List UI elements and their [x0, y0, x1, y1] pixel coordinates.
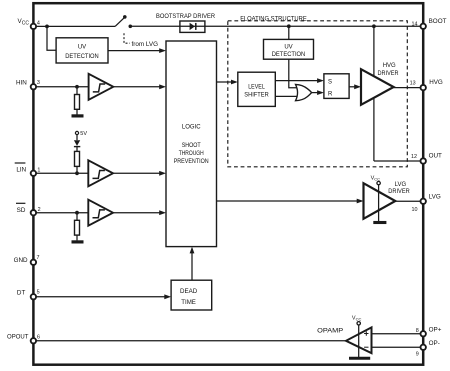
pin 3 HIN — [31, 84, 36, 89]
ground (HIN pulldown) — [72, 114, 84, 117]
arrow into dead time — [164, 294, 171, 299]
floating structure dashed box — [228, 21, 407, 167]
hysteresis symbol HIN — [93, 84, 105, 92]
svg-text:SD: SD — [17, 207, 26, 214]
svg-text:from LVG: from LVG — [132, 42, 159, 48]
OR gate — [296, 84, 312, 100]
pin 14 BOOT — [421, 24, 426, 29]
pin 8 OP+ — [421, 331, 426, 336]
svg-text:OP-: OP- — [429, 340, 440, 347]
svg-text:BOOTSTRAP DRIVER: BOOTSTRAP DRIVER — [156, 14, 216, 20]
schmitt trigger SD — [88, 200, 113, 226]
svg-text:DT: DT — [17, 289, 26, 296]
wire VCC through opamp to ground — [358, 325, 360, 357]
wire SD junction to resistor — [76, 213, 78, 221]
wire LVG driver to pin — [395, 200, 423, 202]
svg-text:HIN: HIN — [16, 80, 27, 87]
wire switch to bootstrap driver — [130, 25, 180, 27]
wire HVG driver to pin — [394, 87, 424, 89]
wire OP- pin to op-amp — [372, 346, 423, 348]
svg-text:DRIVER: DRIVER — [378, 71, 400, 77]
ground (LVG driver) — [373, 221, 386, 224]
svg-text:HVG: HVG — [429, 79, 443, 86]
wire VCC through LVG driver to ground — [378, 185, 380, 221]
wire BOOT rail down to OUT — [373, 26, 375, 161]
wire VCC pin to switch — [33, 25, 115, 27]
svg-text:4: 4 — [37, 20, 40, 26]
wire HIN junction to resistor — [76, 87, 78, 95]
box bootstrap driver — [180, 21, 205, 32]
svg-text:12: 12 — [411, 154, 417, 160]
wire level shifter to S input — [275, 80, 322, 82]
svg-text:PREVENTION: PREVENTION — [174, 159, 209, 165]
svg-text:THROUGH: THROUGH — [179, 151, 204, 157]
wire logic to LVG driver — [217, 200, 362, 202]
wire LIN pin to schmitt — [33, 172, 88, 174]
svg-text:14: 14 — [412, 22, 418, 28]
switch contact dot lower — [129, 25, 133, 29]
svg-text:SHOOT: SHOOT — [182, 143, 201, 149]
node HIN junction — [75, 85, 79, 89]
VCC supply circle (OPAMP) — [357, 322, 360, 325]
wire resistor to ground — [76, 109, 78, 114]
svg-text:OUT: OUT — [429, 153, 442, 160]
wire resistor to ground — [76, 235, 78, 240]
pin 10 LVG — [421, 199, 426, 204]
op-amp OPAMP — [346, 327, 372, 353]
svg-text:UV: UV — [78, 45, 86, 51]
wire HIN schmitt to logic — [113, 86, 164, 88]
wire OR gate to R input — [312, 92, 322, 94]
pin 4 VCC — [31, 24, 36, 29]
node BOOT rail junction — [372, 24, 376, 28]
svg-text:2: 2 — [38, 207, 41, 213]
pin 2 SD — [31, 210, 36, 215]
node SD junction — [75, 211, 79, 215]
wire through bootstrap driver to BOOT pin — [180, 25, 423, 27]
svg-text:S: S — [328, 80, 332, 86]
svg-text:5: 5 — [37, 289, 40, 295]
arrow into logic (LIN) — [159, 171, 166, 176]
svg-text:1: 1 — [37, 168, 40, 174]
wire OUT to pin — [374, 160, 423, 162]
wire level shifter to OR gate — [275, 95, 299, 97]
wire diode to resistor — [76, 147, 78, 152]
wire SD pin to schmitt — [33, 212, 89, 214]
switch contact dot upper — [123, 15, 127, 19]
svg-text:DRIVER: DRIVER — [388, 189, 410, 195]
svg-text:DETECTION: DETECTION — [65, 54, 99, 60]
arrow into R — [317, 90, 324, 95]
wire UV detection to logic — [108, 50, 164, 52]
svg-text:BOOT: BOOT — [429, 18, 447, 25]
svg-text:OPAMP: OPAMP — [317, 328, 344, 335]
opamp + input mark — [364, 331, 368, 335]
pin 9 OP- — [421, 345, 426, 350]
svg-text:SHIFTER: SHIFTER — [244, 93, 269, 99]
pin 1 LIN — [31, 171, 36, 176]
dashed control line from LVG to switch — [124, 33, 130, 43]
svg-text:LEVEL: LEVEL — [248, 84, 265, 90]
wire LIN schmitt to logic — [113, 172, 164, 174]
5V supply circle — [75, 131, 78, 134]
overline SD — [16, 202, 25, 204]
box logic shoot through prevention — [166, 41, 217, 247]
box UV detection (floating) — [264, 39, 314, 59]
op-amp LVG driver — [364, 183, 396, 219]
svg-text:10: 10 — [412, 207, 418, 213]
diode bootstrap — [180, 25, 205, 27]
svg-text:5V: 5V — [80, 131, 87, 137]
wire UV detection down to OR gate — [289, 59, 298, 87]
opamp - input mark — [364, 346, 368, 348]
ground (SD pulldown) — [72, 240, 84, 243]
latch SR — [324, 74, 349, 99]
svg-text:7: 7 — [37, 255, 40, 261]
arrow into level shifter — [231, 80, 238, 85]
wire logic to level shifter — [217, 81, 236, 83]
svg-text:LOGIC: LOGIC — [182, 124, 201, 130]
svg-text:OP+: OP+ — [429, 326, 442, 333]
box level shifter — [238, 72, 275, 106]
ground (OPAMP) — [349, 357, 370, 360]
wire HIN pin to schmitt — [33, 86, 89, 88]
svg-text:9: 9 — [416, 352, 419, 358]
wire 5V to diode — [76, 135, 78, 140]
svg-text:LIN: LIN — [16, 167, 26, 174]
node BOOT junction to UV detection (floating) — [287, 24, 291, 28]
arrow up into logic — [190, 247, 195, 254]
svg-text:VCC: VCC — [371, 175, 381, 181]
arrow into logic (UV) — [159, 48, 166, 53]
box UV detection (VCC side) — [56, 38, 108, 63]
switch blade — [115, 17, 125, 26]
arrow into logic (SD) — [159, 210, 166, 215]
wire DT pin to dead time — [33, 296, 169, 298]
svg-text:UV: UV — [284, 45, 292, 51]
wire resistor to LIN node — [76, 166, 78, 173]
svg-text:GND: GND — [14, 257, 28, 264]
wire dead time up to logic — [191, 249, 193, 281]
svg-text:6: 6 — [37, 335, 40, 341]
node LIN junction — [75, 171, 79, 175]
schmitt trigger LIN — [88, 160, 113, 186]
svg-text:FLOATING STRUCTURE: FLOATING STRUCTURE — [240, 16, 307, 22]
svg-text:R: R — [328, 92, 333, 98]
svg-text:HVG: HVG — [383, 63, 396, 69]
svg-text:LVG: LVG — [395, 182, 407, 188]
wire BOOT junction down to UV detection — [288, 26, 290, 39]
arrow into HVG driver — [354, 84, 361, 89]
arrow into S — [317, 78, 324, 83]
resistor LIN pullup — [75, 151, 80, 166]
svg-text:OPOUT: OPOUT — [7, 335, 29, 341]
svg-text:8: 8 — [416, 328, 419, 334]
VCC supply circle (LVG) — [377, 181, 380, 184]
svg-text:DEAD: DEAD — [180, 289, 198, 295]
svg-text:LVG: LVG — [429, 194, 441, 201]
svg-text:TIME: TIME — [181, 300, 196, 306]
hysteresis symbol SD — [93, 210, 105, 218]
schmitt trigger HIN — [89, 74, 114, 100]
wire SR latch to HVG driver — [349, 86, 359, 88]
pin 5 DT — [31, 294, 36, 299]
resistor HIN pulldown — [75, 95, 80, 110]
wire VCC junction down to UV detection — [47, 26, 56, 50]
wire OP+ pin to op-amp — [372, 333, 423, 335]
resistor SD pulldown — [75, 220, 80, 235]
node VCC junction — [45, 25, 49, 29]
pin 13 HVG — [421, 85, 426, 90]
hysteresis symbol LIN — [93, 171, 105, 179]
arrow into LVG driver — [357, 199, 364, 204]
svg-text:DETECTION: DETECTION — [272, 52, 306, 58]
wire SD schmitt to logic — [113, 212, 164, 214]
pin 7 GND — [31, 260, 36, 265]
svg-text:13: 13 — [410, 81, 416, 87]
svg-text:3: 3 — [37, 80, 40, 86]
diode D1 (to LIN) — [74, 140, 80, 146]
pin 6 OPOUT — [31, 338, 36, 343]
pin 12 OUT — [421, 158, 426, 163]
svg-text:VCC: VCC — [352, 316, 362, 322]
op-amp HVG driver — [361, 69, 394, 105]
wire OPOUT pin to op-amp — [33, 340, 346, 342]
overline LIN — [15, 162, 26, 164]
arrow into logic (HIN) — [159, 84, 166, 89]
box dead time — [171, 280, 212, 310]
